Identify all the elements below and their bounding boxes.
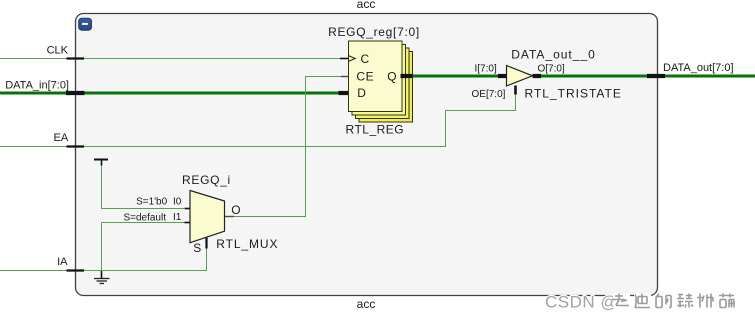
svg-text:D: D	[357, 86, 366, 100]
svg-text:CE: CE	[356, 70, 374, 84]
svg-text:EA: EA	[54, 132, 69, 144]
svg-text:RTL_MUX: RTL_MUX	[216, 237, 278, 251]
svg-text:IA: IA	[57, 256, 68, 268]
svg-text:acc: acc	[357, 0, 376, 11]
svg-text:O: O	[231, 203, 240, 217]
svg-text:DATA_in[7:0]: DATA_in[7:0]	[5, 80, 69, 92]
svg-text:RTL_REG: RTL_REG	[346, 123, 405, 137]
svg-text:I[7:0]: I[7:0]	[475, 64, 497, 75]
svg-text:REGQ_i: REGQ_i	[182, 173, 231, 187]
svg-text:REGQ_reg[7:0]: REGQ_reg[7:0]	[328, 25, 420, 39]
svg-text:I1: I1	[173, 212, 182, 223]
svg-text:CLK: CLK	[47, 45, 69, 57]
svg-text:C: C	[361, 52, 370, 66]
svg-text:OE[7:0]: OE[7:0]	[472, 89, 506, 100]
svg-text:acc: acc	[357, 297, 376, 311]
svg-text:S=default: S=default	[123, 213, 166, 224]
svg-text:DATA_out__0: DATA_out__0	[511, 48, 596, 62]
svg-text:CSDN @: CSDN @	[545, 293, 618, 312]
svg-text:RTL_TRISTATE: RTL_TRISTATE	[525, 87, 622, 101]
svg-text:S=1'b0: S=1'b0	[136, 197, 168, 208]
svg-text:S: S	[193, 241, 201, 255]
svg-text:DATA_out[7:0]: DATA_out[7:0]	[663, 62, 734, 74]
svg-text:Q: Q	[387, 70, 396, 84]
svg-text:I0: I0	[173, 197, 182, 208]
svg-text:O[7:0]: O[7:0]	[538, 64, 565, 75]
